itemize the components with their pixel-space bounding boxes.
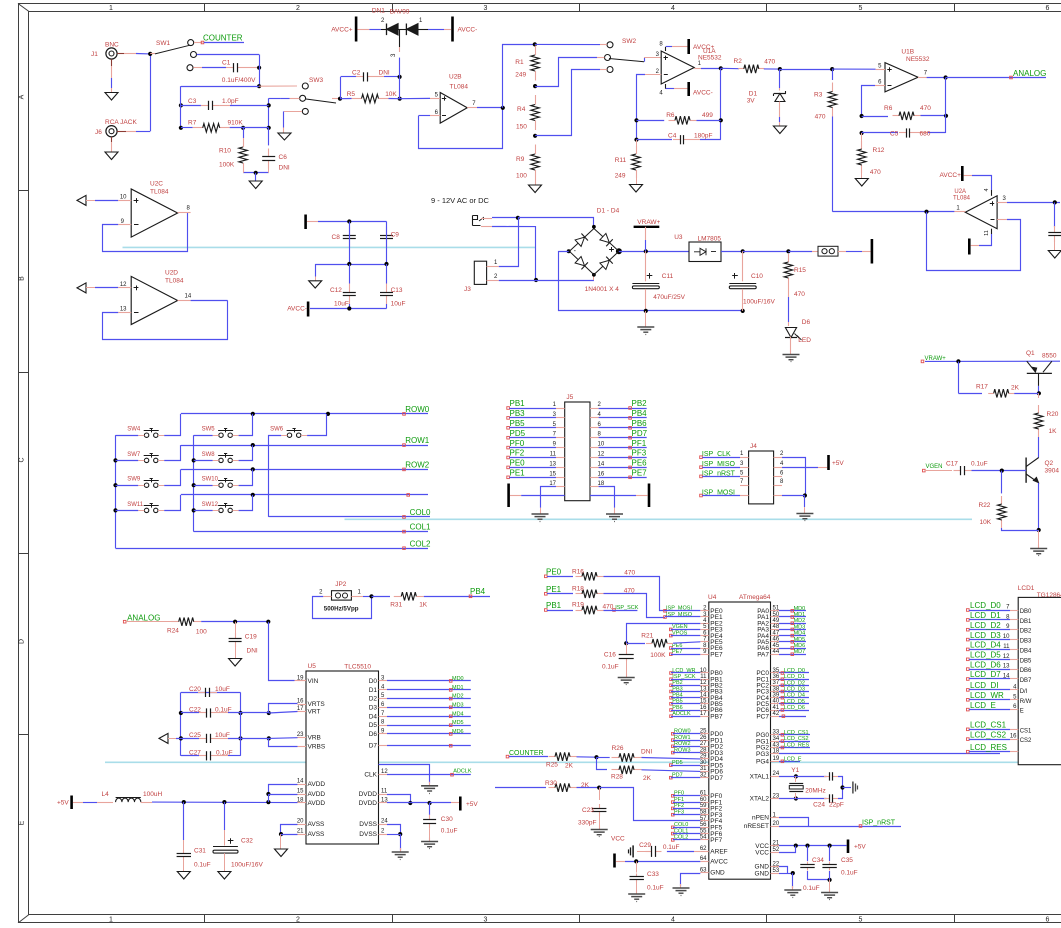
svg-text:59: 59 [700,803,707,809]
svg-text:PG4: PG4 [756,759,769,766]
svg-text:J3: J3 [464,286,471,293]
svg-text:D1: D1 [749,91,758,98]
svg-text:AVCC: AVCC [710,859,728,866]
svg-text:249: 249 [515,72,526,79]
svg-text:J4: J4 [750,443,757,450]
svg-text:MD4: MD4 [452,711,464,717]
svg-text:470: 470 [764,59,775,66]
svg-text:PE1: PE1 [510,469,526,478]
svg-text:3V: 3V [747,98,756,105]
svg-text:U5: U5 [308,663,317,670]
svg-text:MD6: MD6 [794,643,806,649]
svg-text:RCA JACK: RCA JACK [105,119,137,126]
svg-text:20: 20 [297,819,304,825]
svg-text:nPEN: nPEN [752,815,769,822]
svg-text:SW9: SW9 [127,477,141,483]
svg-text:PB1: PB1 [546,601,562,610]
svg-text:PB1: PB1 [510,399,526,408]
svg-text:24: 24 [381,819,388,825]
svg-text:R30: R30 [545,780,557,787]
svg-text:18: 18 [297,798,304,804]
svg-text:D1: D1 [369,687,378,694]
svg-text:L4: L4 [102,791,110,798]
svg-text:GND: GND [755,870,770,877]
svg-text:AVCC-: AVCC- [458,26,478,33]
svg-text:1.0pF: 1.0pF [222,98,239,105]
svg-text:Q1: Q1 [1026,350,1035,357]
svg-text:DB1: DB1 [1020,619,1032,625]
svg-text:2K: 2K [565,763,574,770]
svg-text:4: 4 [671,5,675,12]
svg-text:PD5: PD5 [510,429,526,438]
svg-text:20MHz: 20MHz [805,788,826,795]
svg-text:1: 1 [109,917,113,924]
svg-text:33: 33 [773,730,780,736]
svg-text:26: 26 [700,735,707,741]
svg-text:R5: R5 [347,91,356,98]
svg-text:C10: C10 [751,273,763,280]
svg-text:41: 41 [773,705,780,711]
svg-text:LCD_D4: LCD_D4 [970,641,1001,650]
svg-text:45: 45 [773,643,780,649]
svg-text:DVDD: DVDD [359,800,378,807]
svg-text:10uF: 10uF [391,301,406,308]
svg-text:D3: D3 [369,704,378,711]
svg-text:32: 32 [700,773,707,779]
svg-text:13: 13 [120,307,127,313]
svg-text:LCD_D3: LCD_D3 [970,631,1001,640]
svg-text:20: 20 [773,821,780,827]
svg-text:DVDD: DVDD [359,791,378,798]
svg-text:4: 4 [671,917,675,924]
svg-text:LCD_CS1: LCD_CS1 [784,730,809,736]
svg-text:+5V: +5V [466,801,478,808]
svg-text:CLK: CLK [364,772,377,779]
svg-text:58: 58 [700,810,707,816]
svg-text:330pF: 330pF [578,820,596,827]
svg-text:D: D [19,639,26,644]
svg-text:LCD_E: LCD_E [784,756,802,762]
svg-text:R12: R12 [873,147,885,154]
svg-text:JP2: JP2 [335,581,347,588]
svg-text:44: 44 [773,649,780,655]
svg-text:15: 15 [297,789,304,795]
svg-text:6: 6 [1046,5,1050,12]
svg-text:LCD_D2: LCD_D2 [784,680,805,686]
svg-text:D2: D2 [369,696,378,703]
svg-text:18: 18 [598,481,605,487]
svg-text:19: 19 [773,756,780,762]
svg-text:SW2: SW2 [622,38,636,45]
svg-text:DVSS: DVSS [359,821,377,828]
svg-text:1N4001 X 4: 1N4001 X 4 [585,286,620,293]
svg-text:MD1: MD1 [794,612,806,618]
svg-text:R9: R9 [516,156,525,163]
svg-text:LCD_CS2: LCD_CS2 [784,736,809,742]
svg-text:PB7: PB7 [710,713,723,720]
svg-text:51: 51 [773,606,780,612]
svg-text:11: 11 [984,230,990,236]
svg-text:LCD_RES: LCD_RES [784,743,810,749]
svg-text:12: 12 [1003,654,1010,660]
svg-text:14: 14 [598,461,605,467]
svg-text:470: 470 [815,113,826,120]
svg-text:63: 63 [700,867,707,873]
svg-text:C20: C20 [189,686,201,693]
svg-text:J5: J5 [566,394,573,401]
svg-text:100uF/16V: 100uF/16V [231,862,263,869]
svg-text:0.1uF: 0.1uF [602,664,619,671]
svg-text:0.1uF: 0.1uF [803,885,820,892]
svg-text:PF1: PF1 [632,439,647,448]
svg-text:C35: C35 [841,857,853,864]
svg-text:R20: R20 [1047,411,1059,418]
svg-text:PE7: PE7 [710,651,723,658]
svg-text:8550: 8550 [1042,353,1057,360]
svg-text:DB5: DB5 [1020,658,1032,664]
svg-text:MD6: MD6 [452,729,464,735]
svg-text:VRBS: VRBS [308,743,326,750]
svg-text:12: 12 [700,680,707,686]
svg-text:470: 470 [870,169,881,176]
svg-text:TLC5510: TLC5510 [344,664,371,671]
svg-text:NE5532: NE5532 [698,55,722,62]
svg-text:R21: R21 [641,633,653,640]
svg-text:PE0: PE0 [510,459,526,468]
svg-text:J1: J1 [91,51,98,58]
svg-text:AVCC+: AVCC+ [331,26,353,33]
svg-text:LCD_D5: LCD_D5 [784,699,805,705]
svg-text:38: 38 [773,686,780,692]
svg-text:17: 17 [549,481,556,487]
svg-text:ANALOG: ANALOG [1013,69,1046,78]
svg-text:C34: C34 [812,857,824,864]
svg-text:DNI: DNI [247,648,258,655]
svg-text:MD1: MD1 [452,685,464,691]
svg-text:60: 60 [700,797,707,803]
svg-text:2K: 2K [1011,385,1020,392]
svg-text:AREF: AREF [710,849,727,856]
svg-text:U2D: U2D [165,270,178,277]
svg-text:SW6: SW6 [270,427,284,433]
svg-text:LCD_D6: LCD_D6 [784,705,805,711]
svg-text:C1: C1 [222,60,231,67]
svg-text:36: 36 [773,674,780,680]
svg-text:E: E [19,820,26,825]
svg-text:R18: R18 [572,586,584,593]
svg-text:ROW0: ROW0 [405,405,430,414]
svg-text:TL084: TL084 [165,278,184,285]
svg-text:U2B: U2B [449,74,462,81]
svg-text:C24: C24 [813,802,825,809]
svg-text:910K: 910K [228,120,244,127]
svg-text:C16: C16 [604,652,616,659]
svg-text:100uF/16V: 100uF/16V [743,299,775,306]
svg-text:DB0: DB0 [1020,609,1032,615]
svg-text:SW1: SW1 [156,40,170,47]
svg-text:C32: C32 [241,838,253,845]
svg-text:R26: R26 [612,745,624,752]
svg-text:VIN: VIN [308,678,319,685]
svg-text:Y1: Y1 [791,767,799,774]
svg-text:13: 13 [549,461,556,467]
svg-text:ADCLK: ADCLK [453,769,472,775]
svg-text:17: 17 [700,711,707,717]
svg-text:AVDD: AVDD [308,791,326,798]
svg-text:9 - 12V AC or DC: 9 - 12V AC or DC [431,196,490,205]
svg-text:C33: C33 [647,871,659,878]
svg-text:B: B [19,276,26,281]
svg-text:SW5: SW5 [202,427,216,433]
svg-text:TL084: TL084 [953,196,971,202]
svg-text:COL0: COL0 [410,508,431,517]
svg-text:PF2: PF2 [510,449,525,458]
svg-text:53: 53 [773,868,780,874]
svg-text:249: 249 [615,173,626,180]
svg-text:16: 16 [598,471,605,477]
svg-text:150: 150 [516,124,527,131]
svg-text:R15: R15 [794,267,806,274]
svg-text:499: 499 [702,112,713,119]
svg-text:PA7: PA7 [757,651,769,658]
svg-text:34: 34 [773,736,780,742]
svg-text:MD0: MD0 [794,606,806,612]
svg-text:C9: C9 [391,232,400,239]
svg-text:16: 16 [1010,734,1017,740]
svg-text:10uF: 10uF [215,686,230,693]
svg-text:C11: C11 [662,273,674,280]
svg-text:CS1: CS1 [1020,728,1032,734]
svg-text:C23: C23 [582,807,594,814]
svg-text:D6: D6 [802,319,811,326]
svg-text:MD2: MD2 [452,694,464,700]
svg-text:15: 15 [700,699,707,705]
svg-text:MD5: MD5 [794,637,806,643]
svg-text:3: 3 [484,5,488,12]
svg-text:180pF: 180pF [694,132,712,139]
svg-text:5: 5 [859,917,863,924]
svg-text:C22: C22 [189,707,201,714]
svg-text:NE5532: NE5532 [906,56,930,63]
svg-text:C13: C13 [391,287,403,294]
svg-text:D7: D7 [369,743,378,750]
svg-text:SW10: SW10 [202,477,219,483]
svg-text:4: 4 [984,188,990,191]
svg-text:C27: C27 [189,749,201,756]
svg-text:21: 21 [297,829,304,835]
svg-text:LCD_CS1: LCD_CS1 [970,721,1007,730]
svg-text:R1: R1 [515,59,524,66]
svg-text:PF7: PF7 [710,837,722,844]
svg-text:R/W: R/W [1020,699,1032,705]
svg-text:R2: R2 [734,58,743,65]
svg-text:PB4: PB4 [632,409,648,418]
svg-text:R7: R7 [188,120,197,127]
svg-text:0.1uF/400V: 0.1uF/400V [222,77,256,84]
svg-text:DNI: DNI [641,748,652,755]
svg-text:nRESET: nRESET [744,823,769,830]
svg-text:SW8: SW8 [202,452,216,458]
svg-text:+5V: +5V [832,460,844,467]
svg-text:14: 14 [297,779,304,785]
svg-text:PB6: PB6 [632,419,648,428]
svg-text:C4: C4 [668,132,677,139]
svg-text:VRB: VRB [308,735,321,742]
svg-text:VRT: VRT [308,709,321,716]
svg-text:2K: 2K [643,775,652,782]
svg-text:64: 64 [700,856,707,862]
svg-text:0.1uF: 0.1uF [194,862,211,869]
svg-text:C29: C29 [639,842,651,849]
svg-text:+5V: +5V [57,800,69,807]
svg-text:AVDD: AVDD [308,781,326,788]
svg-text:R19: R19 [572,602,584,609]
svg-text:PB2: PB2 [632,399,648,408]
svg-text:DB4: DB4 [1020,648,1032,654]
svg-text:VCC: VCC [755,849,769,856]
svg-text:PE1: PE1 [546,585,562,594]
svg-text:XTAL1: XTAL1 [750,774,770,781]
svg-text:+5V: +5V [854,844,866,851]
svg-text:MD5: MD5 [452,720,464,726]
svg-text:MD2: MD2 [794,618,806,624]
svg-text:PB6: PB6 [672,705,682,711]
svg-text:1K: 1K [419,602,428,609]
svg-text:LCD_D0: LCD_D0 [784,668,805,674]
svg-text:LCD_D2: LCD_D2 [970,621,1001,630]
svg-text:LED: LED [798,337,811,344]
svg-text:0.1uF: 0.1uF [441,828,458,835]
svg-text:E: E [1020,709,1024,715]
svg-text:LCD_DI: LCD_DI [970,681,998,690]
svg-text:16: 16 [297,699,304,705]
svg-text:3: 3 [484,917,488,924]
svg-text:SW3: SW3 [309,77,323,84]
svg-text:R24: R24 [167,628,179,635]
svg-text:AVSS: AVSS [308,831,326,838]
svg-text:21: 21 [773,840,780,846]
svg-text:3904: 3904 [1045,468,1060,475]
svg-text:PB4: PB4 [470,587,486,596]
svg-text:D4: D4 [369,713,378,720]
svg-text:Q2: Q2 [1045,460,1054,467]
svg-text:PD7: PD7 [710,775,723,782]
svg-text:SW7: SW7 [127,452,141,458]
svg-text:31: 31 [700,766,707,772]
svg-text:U2A: U2A [954,189,966,195]
svg-text:15: 15 [549,471,556,477]
svg-text:19: 19 [297,675,304,681]
svg-text:C6: C6 [279,154,288,161]
svg-text:PB3: PB3 [510,409,526,418]
svg-text:C19: C19 [245,634,257,641]
svg-text:1K: 1K [1049,428,1058,435]
svg-text:R4: R4 [517,106,526,113]
svg-text:C8: C8 [332,234,341,241]
svg-text:LCD_RES: LCD_RES [970,743,1007,752]
svg-text:MD3: MD3 [452,702,464,708]
svg-text:PF0: PF0 [510,439,525,448]
svg-text:D5: D5 [369,722,378,729]
svg-text:10: 10 [700,668,707,674]
svg-text:XTAL2: XTAL2 [750,796,770,803]
svg-text:54: 54 [700,835,707,841]
svg-text:U4: U4 [708,594,717,601]
svg-text:11: 11 [700,674,707,680]
svg-text:DN1: DN1 [372,7,385,14]
svg-text:C: C [19,457,26,462]
svg-text:LCD_D1: LCD_D1 [970,611,1001,620]
svg-text:0.1uF: 0.1uF [971,461,988,468]
svg-text:PG3: PG3 [756,751,769,758]
svg-text:62: 62 [700,846,707,852]
svg-text:R25: R25 [546,762,558,769]
svg-text:13: 13 [700,686,707,692]
svg-text:28: 28 [700,747,707,753]
svg-text:C12: C12 [330,287,342,294]
svg-text:10uF: 10uF [334,301,349,308]
svg-text:2: 2 [296,5,300,12]
svg-text:U2C: U2C [150,181,163,188]
svg-text:680: 680 [920,131,931,138]
svg-text:LCD_D1: LCD_D1 [784,674,805,680]
svg-text:50: 50 [773,612,780,618]
svg-text:12: 12 [598,452,605,458]
svg-text:100K: 100K [219,162,235,169]
svg-text:5: 5 [859,5,863,12]
svg-text:46: 46 [773,637,780,643]
svg-text:LM7805: LM7805 [698,236,722,243]
svg-text:14: 14 [1003,674,1010,680]
svg-text:D/I: D/I [1020,689,1028,695]
svg-text:10K: 10K [385,91,397,98]
svg-text:COUNTER: COUNTER [203,34,243,43]
svg-text:U3: U3 [674,234,683,241]
svg-text:MD3: MD3 [794,624,806,630]
svg-text:24: 24 [773,771,780,777]
svg-text:LCD_D0: LCD_D0 [970,601,1001,610]
svg-text:47: 47 [773,630,780,636]
svg-text:56: 56 [700,822,707,828]
svg-text:PE6: PE6 [632,459,648,468]
svg-text:14: 14 [700,693,707,699]
svg-text:PE0: PE0 [546,568,562,577]
svg-text:C17: C17 [946,461,958,468]
svg-text:VRAW+: VRAW+ [637,219,660,226]
svg-text:VRTS: VRTS [308,701,326,708]
svg-text:18: 18 [773,749,780,755]
svg-text:470: 470 [794,291,805,298]
svg-text:LCD_D5: LCD_D5 [970,651,1001,660]
svg-text:R31: R31 [390,602,402,609]
svg-text:LCD1: LCD1 [1018,585,1035,592]
svg-text:61: 61 [700,791,707,797]
svg-text:R6: R6 [884,105,893,112]
svg-text:SW4: SW4 [127,427,141,433]
svg-text:ATmega64: ATmega64 [739,594,771,601]
svg-text:TL084: TL084 [150,189,169,196]
svg-text:29: 29 [700,754,707,760]
svg-text:100: 100 [516,173,527,180]
svg-text:2: 2 [296,917,300,924]
svg-text:42: 42 [773,711,780,717]
svg-text:470uF/25V: 470uF/25V [653,294,685,301]
svg-text:470: 470 [624,570,635,577]
svg-text:SW12: SW12 [202,502,219,508]
svg-text:PF3: PF3 [632,449,647,458]
svg-text:LCD_D3: LCD_D3 [784,687,805,693]
svg-text:AVCC-: AVCC- [693,90,713,97]
